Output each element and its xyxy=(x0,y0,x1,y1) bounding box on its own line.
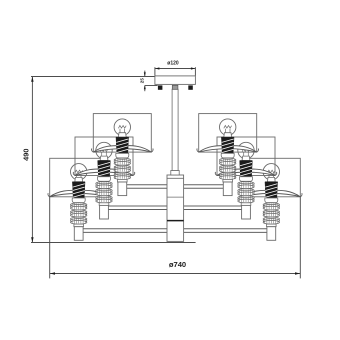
lamp inner-left: lower collar xyxy=(118,179,128,182)
lamp outer-right: lower collar xyxy=(267,224,277,227)
lamp inner-left: filament xyxy=(118,126,126,134)
stem top nub xyxy=(172,85,178,89)
svg-text:490: 490 xyxy=(22,149,31,161)
canopy mount block right xyxy=(188,85,193,89)
lamp middle-right: bulb xyxy=(238,142,254,158)
svg-text:ø120: ø120 xyxy=(167,61,179,67)
central column body xyxy=(167,175,184,241)
lamp middle-right: lower collar xyxy=(241,203,251,206)
dimension 490 extension line bottom xyxy=(31,242,196,244)
canopy mount block left xyxy=(158,85,163,89)
lamp middle-right: filament xyxy=(242,149,250,157)
lamp middle-left: ribbed bead stack xyxy=(96,182,112,186)
lamp inner-left: curved wing arm xyxy=(93,145,151,152)
ceiling stem xyxy=(172,89,178,170)
column divider 2 xyxy=(167,220,184,222)
lamp inner-right: socket (threaded, black) xyxy=(221,137,234,153)
canopy plate xyxy=(155,76,196,85)
lamp middle-left: drop tube xyxy=(100,205,109,219)
lamp outer-left: bulb xyxy=(71,164,87,180)
dimension 25 (canopy height) xyxy=(144,71,146,77)
lamp inner-left: glass shade xyxy=(93,114,151,153)
svg-text:25: 25 xyxy=(139,78,144,84)
lamp inner-left: drop tube xyxy=(118,182,127,196)
lamp outer-left: socket collar xyxy=(72,198,85,203)
lamp inner-right: bulb neck xyxy=(224,133,232,137)
column divider 1 xyxy=(167,196,184,198)
lamp middle-left: socket (threaded, black) xyxy=(98,161,111,177)
column top cap line xyxy=(167,177,184,179)
lamp middle-left: filament xyxy=(100,149,108,157)
lamp middle-left: bulb neck xyxy=(100,156,108,160)
lamp middle-left: glass shade xyxy=(75,137,133,176)
lamp inner-left: socket (threaded, black) xyxy=(116,137,129,153)
dimension 490 line xyxy=(31,77,33,243)
lamp inner-right: filament xyxy=(224,126,232,134)
lamp outer-left: lower collar xyxy=(74,224,84,227)
lamp outer-left: ribbed bead stack xyxy=(71,203,87,207)
lamp inner-left: ribbed bead stack xyxy=(114,158,130,162)
dimension 740 line xyxy=(50,273,301,275)
lamp outer-right: ribbed bead stack xyxy=(263,203,279,207)
lamp middle-right: curved wing arm xyxy=(217,169,275,176)
lamp middle-right: drop tube xyxy=(242,205,251,219)
lamp middle-right: ribbed bead stack xyxy=(238,182,254,186)
arm level 2 (middle pair) xyxy=(108,205,241,207)
dimension 25 extension line xyxy=(145,85,158,87)
dimension 740 extension line right xyxy=(299,197,301,279)
lamp outer-right: curved wing arm xyxy=(242,190,300,197)
lamp middle-left: curved wing arm xyxy=(75,169,133,176)
lamp inner-left: socket collar xyxy=(116,153,129,158)
lamp middle-right: glass shade xyxy=(217,137,275,176)
lamp outer-right: glass shade xyxy=(242,158,300,197)
lamp middle-left: socket collar xyxy=(97,177,110,182)
lamp inner-right: glass shade xyxy=(199,114,257,153)
lamp outer-right: socket (threaded, black) xyxy=(265,182,278,198)
lamp middle-right: bulb neck xyxy=(242,156,250,160)
lamp inner-left: bulb xyxy=(114,119,130,135)
dimension 120 extension lines xyxy=(154,67,156,75)
lamp outer-left: filament xyxy=(75,170,83,178)
arm level 1 (inner pair) xyxy=(127,184,224,186)
dimension 120 line xyxy=(155,68,196,70)
lamp middle-right: socket collar xyxy=(239,177,252,182)
lamp outer-right: bulb xyxy=(263,164,279,180)
lamp outer-right: bulb neck xyxy=(267,177,275,181)
lamp inner-left: bulb neck xyxy=(118,133,126,137)
lamp middle-left: lower collar xyxy=(99,203,109,206)
lamp inner-right: lower collar xyxy=(223,179,233,182)
lamp middle-right: socket (threaded, black) xyxy=(240,161,253,177)
lamp inner-right: drop tube xyxy=(223,182,232,196)
dimension 490 extension line top xyxy=(31,76,155,78)
lamp outer-right: socket collar xyxy=(265,198,278,203)
lamp outer-right: filament xyxy=(267,170,275,178)
svg-text:ø740: ø740 xyxy=(169,260,186,269)
lamp outer-left: drop tube xyxy=(74,227,83,241)
lamp inner-right: bulb xyxy=(220,119,236,135)
lamp outer-left: glass shade xyxy=(50,158,108,197)
lamp outer-left: socket (threaded, black) xyxy=(72,182,85,198)
lamp outer-left: curved wing arm xyxy=(50,190,108,197)
lamp outer-right: drop tube xyxy=(267,227,276,241)
lamp outer-left: bulb neck xyxy=(75,177,83,181)
arm level 3 (outer pair) xyxy=(83,228,267,230)
lamp inner-right: curved wing arm xyxy=(199,145,257,152)
stem collar xyxy=(171,171,179,176)
dimension 740 extension line left xyxy=(49,197,51,279)
lamp inner-right: ribbed bead stack xyxy=(220,158,236,162)
lamp middle-left: bulb xyxy=(96,142,112,158)
lamp inner-right: socket collar xyxy=(221,153,234,158)
